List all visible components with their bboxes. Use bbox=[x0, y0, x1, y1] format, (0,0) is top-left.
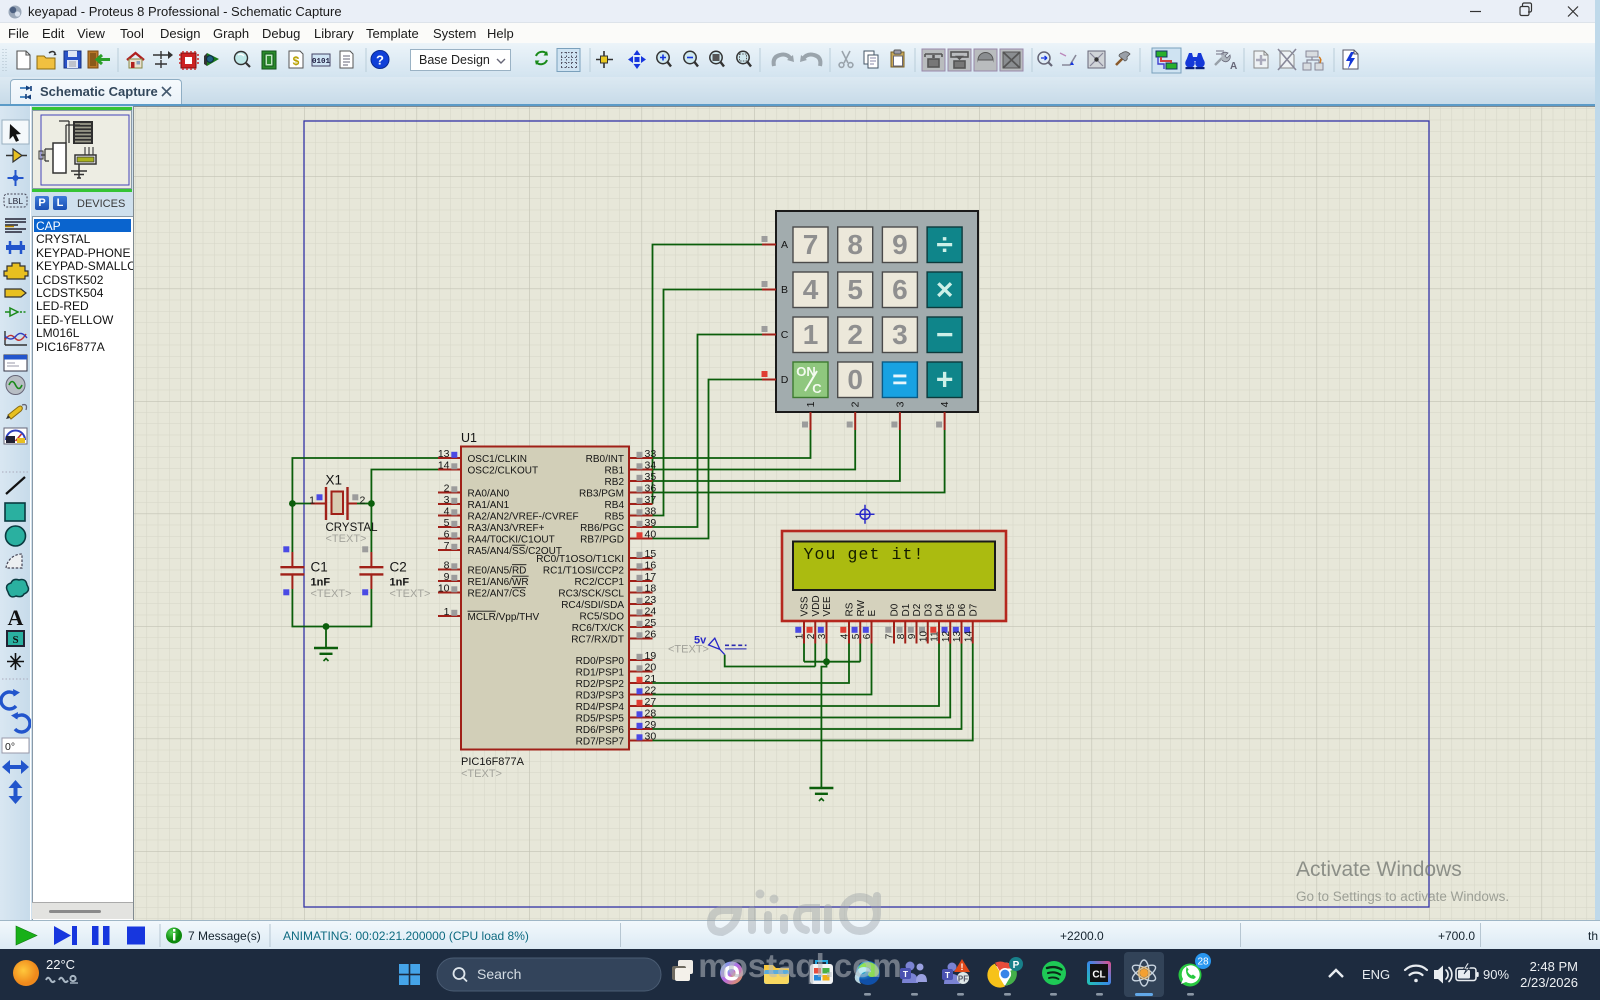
wire LCD VEE down bbox=[826, 644, 828, 662]
U1 pin 26 RC7/RX/DT bbox=[629, 638, 653, 640]
LCD module LM016L bbox=[782, 531, 1006, 621]
svg-text:3: 3 bbox=[892, 319, 908, 350]
svg-text:OSC1/CLKIN: OSC1/CLKIN bbox=[468, 454, 527, 465]
svg-text:D5: D5 bbox=[946, 603, 957, 616]
5v terminal dashes bbox=[725, 644, 747, 646]
svg-text:OSC2/CLKOUT: OSC2/CLKOUT bbox=[468, 466, 539, 477]
wire LCD ground node to ground symbol bbox=[821, 662, 826, 788]
svg-text:37: 37 bbox=[645, 494, 657, 506]
svg-text:90%: 90% bbox=[1483, 967, 1509, 982]
svg-text:RB4: RB4 bbox=[605, 500, 625, 511]
svg-text:12: 12 bbox=[941, 631, 952, 643]
keypad button 3 bbox=[882, 317, 917, 353]
microcontroller U1 PIC16F877A bbox=[461, 447, 629, 750]
svg-text:24: 24 bbox=[645, 606, 657, 618]
svg-text:18: 18 bbox=[645, 583, 657, 595]
junction node OSC2/XTAL2 bbox=[368, 500, 375, 507]
svg-text:?: ? bbox=[376, 53, 384, 68]
svg-text:D4: D4 bbox=[935, 603, 946, 616]
svg-text:3: 3 bbox=[894, 401, 906, 407]
svg-text:$: $ bbox=[293, 54, 300, 68]
keypad button 8 bbox=[838, 227, 873, 263]
svg-text:13: 13 bbox=[438, 448, 450, 460]
svg-text:6: 6 bbox=[444, 529, 450, 541]
svg-text:RB2: RB2 bbox=[605, 477, 625, 488]
wire ground net VSS-VEE-RW bbox=[804, 661, 860, 663]
svg-text:38: 38 bbox=[645, 506, 657, 518]
svg-text:LBL: LBL bbox=[8, 196, 23, 206]
device list bbox=[32, 216, 133, 1000]
wire U1 OSC2 to crystal/C2 bbox=[371, 470, 438, 553]
wire to ground symbol bbox=[325, 627, 327, 649]
svg-text:mostaql.com: mostaql.com bbox=[700, 947, 900, 984]
svg-text:7: 7 bbox=[803, 229, 819, 260]
svg-text:RD5/PSP5: RD5/PSP5 bbox=[576, 714, 625, 725]
U1 pin 23 RC4/SDI/SDA bbox=[629, 603, 653, 605]
U1 pin 8 RE0/AN5/RD bbox=[438, 569, 461, 571]
svg-text:40: 40 bbox=[645, 529, 657, 541]
svg-text:<TEXT>: <TEXT> bbox=[668, 644, 709, 656]
svg-text:RA4/T0CKI/C1OUT: RA4/T0CKI/C1OUT bbox=[468, 535, 555, 546]
svg-text:T: T bbox=[903, 969, 909, 979]
svg-text:A: A bbox=[8, 605, 24, 630]
svg-text:RA0/AN0: RA0/AN0 bbox=[468, 489, 510, 500]
wire LCD VSS to ground net bbox=[803, 644, 805, 662]
svg-text:1: 1 bbox=[795, 633, 806, 639]
keypad button ÷ bbox=[927, 227, 962, 263]
U1 pin 5 RA3/AN3/VREF+ bbox=[438, 526, 461, 528]
svg-text:B: B bbox=[781, 284, 788, 296]
U1 pin 30 RD7/PSP7 bbox=[629, 740, 653, 742]
origin marker bbox=[856, 505, 875, 524]
svg-text:RA3/AN3/VREF+: RA3/AN3/VREF+ bbox=[468, 523, 545, 534]
wire U1 RD3 to LCD E bbox=[653, 644, 872, 695]
svg-text:RE1/AN6/WR: RE1/AN6/WR bbox=[468, 577, 529, 588]
svg-text:1nF: 1nF bbox=[390, 577, 410, 589]
U1 pin 13 OSC1/CLKIN bbox=[438, 457, 461, 459]
svg-text:VSS: VSS bbox=[800, 596, 811, 616]
svg-text:19: 19 bbox=[645, 650, 657, 662]
keypad button 7 bbox=[793, 227, 828, 263]
svg-text:10: 10 bbox=[438, 583, 450, 595]
svg-text:<TEXT>: <TEXT> bbox=[311, 588, 352, 600]
svg-text:5: 5 bbox=[851, 633, 862, 639]
svg-text:9: 9 bbox=[892, 229, 908, 260]
svg-text:RD7/PSP7: RD7/PSP7 bbox=[576, 737, 625, 748]
wire U1 RD4 to LCD D4 bbox=[653, 644, 940, 707]
svg-text:9: 9 bbox=[444, 571, 450, 583]
svg-text:RD0/PSP0: RD0/PSP0 bbox=[576, 656, 625, 667]
svg-text:RD4/PSP4: RD4/PSP4 bbox=[576, 702, 625, 713]
svg-text:5: 5 bbox=[847, 274, 863, 305]
svg-text:22°C: 22°C bbox=[46, 957, 75, 972]
svg-text:C: C bbox=[781, 329, 789, 341]
wire crystal right lead bbox=[357, 503, 371, 505]
U1 pin 15 RC0/T1OSO/T1CKI bbox=[629, 557, 653, 559]
U1 pin 2 RA0/AN0 bbox=[438, 492, 461, 494]
svg-text:VDD: VDD bbox=[811, 595, 822, 616]
power terminal 5v bbox=[694, 635, 725, 655]
svg-text:1: 1 bbox=[444, 606, 450, 618]
svg-text:÷: ÷ bbox=[936, 229, 952, 262]
U1 pin 28 RD5/PSP5 bbox=[629, 717, 653, 719]
U1 pin 33 RB0/INT bbox=[629, 457, 653, 459]
svg-text:A: A bbox=[781, 239, 788, 251]
svg-text:C: C bbox=[812, 381, 822, 396]
svg-text:C1: C1 bbox=[311, 560, 328, 575]
svg-text:2/23/2026: 2/23/2026 bbox=[1520, 975, 1578, 990]
svg-text:6: 6 bbox=[862, 633, 873, 639]
keypad button 1 bbox=[793, 317, 828, 353]
svg-text:RC4/SDI/SDA: RC4/SDI/SDA bbox=[561, 600, 624, 611]
svg-text:4: 4 bbox=[939, 401, 951, 407]
svg-text:8: 8 bbox=[896, 633, 907, 639]
svg-text:RC5/SDO: RC5/SDO bbox=[580, 612, 625, 623]
keypad button 0 bbox=[838, 362, 873, 398]
wire keypad col 1 to U1 RB0 bbox=[653, 430, 811, 458]
svg-text:1nF: 1nF bbox=[311, 577, 331, 589]
svg-text:11: 11 bbox=[930, 631, 941, 642]
svg-text:VEE: VEE bbox=[822, 596, 833, 616]
U1 pin 9 RE1/AN6/WR bbox=[438, 580, 461, 582]
svg-text:A: A bbox=[1230, 61, 1237, 72]
crystal X1 bbox=[311, 487, 357, 520]
svg-text:7: 7 bbox=[885, 633, 896, 639]
svg-text:D: D bbox=[781, 374, 789, 386]
svg-text:34: 34 bbox=[645, 460, 657, 472]
svg-text:PF: PF bbox=[958, 975, 968, 984]
svg-text:RA2/AN2/VREF-/CVREF: RA2/AN2/VREF-/CVREF bbox=[468, 512, 579, 523]
svg-text:D2: D2 bbox=[912, 603, 923, 616]
svg-text:14: 14 bbox=[438, 460, 450, 472]
svg-text:14: 14 bbox=[963, 631, 974, 643]
svg-text:X1: X1 bbox=[326, 473, 343, 488]
wire keypad row B to U1 RB5 bbox=[653, 290, 763, 516]
U1 pin 25 RC6/TX/CK bbox=[629, 626, 653, 628]
overview minimap bbox=[32, 107, 132, 110]
svg-text:25: 25 bbox=[645, 617, 657, 629]
svg-text:2: 2 bbox=[444, 483, 450, 495]
svg-text:28: 28 bbox=[1197, 957, 1209, 968]
svg-text:MCLR/Vpp/THV: MCLR/Vpp/THV bbox=[468, 612, 540, 623]
U1 pin 21 RD2/PSP2 bbox=[629, 682, 653, 684]
svg-text:2: 2 bbox=[850, 401, 862, 407]
keypad button ON/C bbox=[793, 362, 828, 398]
U1 pin 4 RA2/AN2/VREF-/CVREF bbox=[438, 515, 461, 517]
wire U1 RD6 to LCD D6 bbox=[653, 644, 962, 730]
svg-text:RS: RS bbox=[845, 602, 856, 616]
wire C2 bottom to ground net bbox=[326, 589, 371, 627]
wire keypad col 2 to U1 RB1 bbox=[653, 430, 856, 470]
U1 pin 6 RA4/T0CKI/C1OUT bbox=[438, 538, 461, 540]
U1 pin 39 RB6/PGC bbox=[629, 526, 653, 528]
svg-text:×: × bbox=[936, 274, 954, 307]
svg-text:+: + bbox=[936, 364, 954, 397]
svg-text:6: 6 bbox=[892, 274, 908, 305]
svg-text:<TEXT>: <TEXT> bbox=[390, 588, 431, 600]
U1 pin 35 RB2 bbox=[629, 480, 653, 482]
svg-text:RW: RW bbox=[856, 599, 867, 616]
svg-text:You get it!: You get it! bbox=[804, 545, 925, 564]
wire keypad row C to U1 RB6 bbox=[653, 335, 763, 528]
svg-text:P: P bbox=[1013, 960, 1020, 971]
svg-text:26: 26 bbox=[645, 629, 657, 641]
svg-text:ENG: ENG bbox=[1362, 967, 1390, 982]
svg-text:0101: 0101 bbox=[312, 58, 331, 66]
svg-text:D7: D7 bbox=[968, 603, 979, 616]
svg-text:RE2/AN7/CS: RE2/AN7/CS bbox=[468, 589, 527, 600]
svg-text:RB3/PGM: RB3/PGM bbox=[579, 489, 624, 500]
svg-text:D0: D0 bbox=[890, 603, 901, 616]
junction node OSC1/XTAL1 bbox=[289, 500, 296, 507]
keypad button = bbox=[882, 362, 917, 398]
wire keypad col 3 to U1 RB2 bbox=[653, 430, 900, 481]
svg-text:RC7/RX/DT: RC7/RX/DT bbox=[571, 635, 624, 646]
svg-text:RA1/AN1: RA1/AN1 bbox=[468, 500, 510, 511]
U1 pin 27 RD4/PSP4 bbox=[629, 705, 653, 707]
svg-text:15: 15 bbox=[645, 548, 657, 560]
svg-text:17: 17 bbox=[645, 571, 657, 583]
svg-text:1: 1 bbox=[803, 319, 819, 350]
U1 pin 3 RA1/AN1 bbox=[438, 503, 461, 505]
svg-text:RD2/PSP2: RD2/PSP2 bbox=[576, 679, 625, 690]
keypad button + bbox=[927, 362, 962, 398]
wire C1 bottom to ground net bbox=[292, 589, 326, 627]
svg-text:4: 4 bbox=[444, 506, 450, 518]
svg-text:13: 13 bbox=[952, 631, 963, 643]
keypad button × bbox=[927, 272, 962, 308]
svg-text:RE0/AN5/RD: RE0/AN5/RD bbox=[468, 566, 527, 577]
svg-text:RC2/CCP1: RC2/CCP1 bbox=[575, 577, 625, 588]
keypad button 2 bbox=[838, 317, 873, 353]
svg-text:RD3/PSP3: RD3/PSP3 bbox=[576, 691, 625, 702]
svg-text:2: 2 bbox=[806, 633, 817, 639]
wire LCD RW down bbox=[859, 644, 861, 662]
svg-text:E: E bbox=[867, 610, 878, 617]
wire crystal left lead bbox=[292, 503, 311, 505]
keypad button − bbox=[927, 317, 962, 353]
U1 pin 40 RB7/PGD bbox=[629, 538, 653, 540]
svg-text:RC0/T1OSO/T1CKI: RC0/T1OSO/T1CKI bbox=[536, 554, 624, 565]
wire keypad row D to U1 RB7 bbox=[653, 380, 763, 539]
svg-text:<TEXT>: <TEXT> bbox=[326, 533, 367, 545]
U1 pin 19 RD0/PSP0 bbox=[629, 659, 653, 661]
keypad button 4 bbox=[793, 272, 828, 308]
U1 pin 10 RE2/AN7/CS bbox=[438, 592, 461, 594]
sheet border bbox=[304, 121, 1429, 907]
svg-text:C2: C2 bbox=[390, 560, 407, 575]
svg-text:33: 33 bbox=[645, 448, 657, 460]
P L DEVICES header bbox=[35, 196, 49, 210]
svg-text:9: 9 bbox=[907, 633, 918, 639]
svg-text:RC6/TX/CK: RC6/TX/CK bbox=[572, 623, 625, 634]
svg-text:36: 36 bbox=[645, 483, 657, 495]
ground symbol (crystal) bbox=[314, 648, 338, 661]
capacitor C2 1nF bbox=[359, 552, 383, 589]
wire U1 OSC1 to crystal/C1 bbox=[292, 458, 438, 552]
ground symbol (LCD) bbox=[809, 788, 833, 801]
U1 pin 22 RD3/PSP3 bbox=[629, 694, 653, 696]
wire U1 RD2 to LCD RS bbox=[653, 644, 850, 684]
capacitor C1 1nF bbox=[280, 552, 304, 589]
svg-text:10: 10 bbox=[918, 631, 929, 643]
svg-text:<TEXT>: <TEXT> bbox=[461, 768, 502, 780]
svg-text:8: 8 bbox=[444, 560, 450, 572]
wire U1 RD7 to LCD D7 bbox=[653, 644, 973, 741]
svg-text:D3: D3 bbox=[923, 603, 934, 616]
junction LCD ground node bbox=[823, 658, 830, 665]
svg-text:1: 1 bbox=[309, 495, 315, 507]
svg-text:35: 35 bbox=[645, 471, 657, 483]
svg-text:39: 39 bbox=[645, 517, 657, 529]
svg-text:7: 7 bbox=[444, 540, 450, 552]
keypad button 9 bbox=[882, 227, 917, 263]
svg-text:3: 3 bbox=[444, 494, 450, 506]
svg-text:T: T bbox=[945, 970, 951, 980]
svg-text:RB5: RB5 bbox=[605, 512, 625, 523]
U1 pin 1 MCLR/Vpp/THV bbox=[438, 615, 461, 617]
svg-text:PIC16F877A: PIC16F877A bbox=[461, 756, 525, 768]
U1 pin 16 RC1/T1OSI/CCP2 bbox=[629, 569, 653, 571]
svg-text:−: − bbox=[936, 319, 954, 352]
svg-text:RB7/PGD: RB7/PGD bbox=[580, 535, 624, 546]
svg-text:!: ! bbox=[961, 962, 964, 972]
svg-text:4: 4 bbox=[840, 633, 851, 639]
svg-text:3: 3 bbox=[817, 633, 828, 639]
svg-text:RD1/PSP1: RD1/PSP1 bbox=[576, 668, 625, 679]
U1 pin 18 RC3/SCK/SCL bbox=[629, 592, 653, 594]
keypad button 6 bbox=[882, 272, 917, 308]
U1 pin 17 RC2/CCP1 bbox=[629, 580, 653, 582]
svg-text:2: 2 bbox=[847, 319, 863, 350]
wire U1 RD5 to LCD D5 bbox=[653, 644, 951, 718]
svg-text:1: 1 bbox=[805, 401, 817, 407]
svg-text:RB6/PGC: RB6/PGC bbox=[580, 523, 624, 534]
U1 pin 38 RB5 bbox=[629, 515, 653, 517]
junction ground net bbox=[323, 623, 330, 630]
keypad button 5 bbox=[838, 272, 873, 308]
svg-text:2:48 PM: 2:48 PM bbox=[1530, 959, 1578, 974]
svg-text:D6: D6 bbox=[957, 603, 968, 616]
svg-text:CL: CL bbox=[1092, 970, 1105, 981]
svg-text:RD6/PSP6: RD6/PSP6 bbox=[576, 725, 625, 736]
wire 5v to LCD VDD bbox=[725, 644, 816, 667]
U1 pin 7 RA5/AN4/SS/C2OUT bbox=[438, 549, 461, 551]
svg-text:16: 16 bbox=[645, 560, 657, 572]
svg-text:0: 0 bbox=[847, 364, 863, 395]
svg-text:0°: 0° bbox=[5, 741, 15, 753]
svg-text:4: 4 bbox=[803, 274, 819, 305]
wire keypad row A to U1 RB4 bbox=[653, 245, 763, 505]
svg-text:20: 20 bbox=[645, 662, 657, 674]
U1 pin 24 RC5/SDO bbox=[629, 615, 653, 617]
svg-text:RC1/T1OSI/CCP2: RC1/T1OSI/CCP2 bbox=[543, 566, 625, 577]
svg-text:2: 2 bbox=[360, 495, 366, 507]
U1 pin 34 RB1 bbox=[629, 469, 653, 471]
U1 pin 37 RB4 bbox=[629, 503, 653, 505]
U1 pin 20 RD1/PSP1 bbox=[629, 671, 653, 673]
svg-text:RB1: RB1 bbox=[605, 466, 625, 477]
svg-text:D1: D1 bbox=[901, 603, 912, 616]
svg-text:Search: Search bbox=[477, 966, 521, 982]
svg-text:RC3/SCK/SCL: RC3/SCK/SCL bbox=[558, 589, 624, 600]
svg-text:RB0/INT: RB0/INT bbox=[586, 454, 624, 465]
wire keypad col 4 to U1 RB3 bbox=[653, 430, 945, 493]
U1 pin 14 OSC2/CLKOUT bbox=[438, 469, 461, 471]
svg-text:23: 23 bbox=[645, 594, 657, 606]
U1 pin 36 RB3/PGM bbox=[629, 492, 653, 494]
svg-text:U1: U1 bbox=[461, 431, 477, 445]
keypad calculator 4x4 bbox=[776, 211, 978, 412]
svg-text:S: S bbox=[12, 634, 18, 646]
svg-text:5: 5 bbox=[444, 517, 450, 529]
svg-text:8: 8 bbox=[847, 229, 863, 260]
U1 pin 29 RD6/PSP6 bbox=[629, 728, 653, 730]
svg-text:=: = bbox=[892, 364, 907, 394]
